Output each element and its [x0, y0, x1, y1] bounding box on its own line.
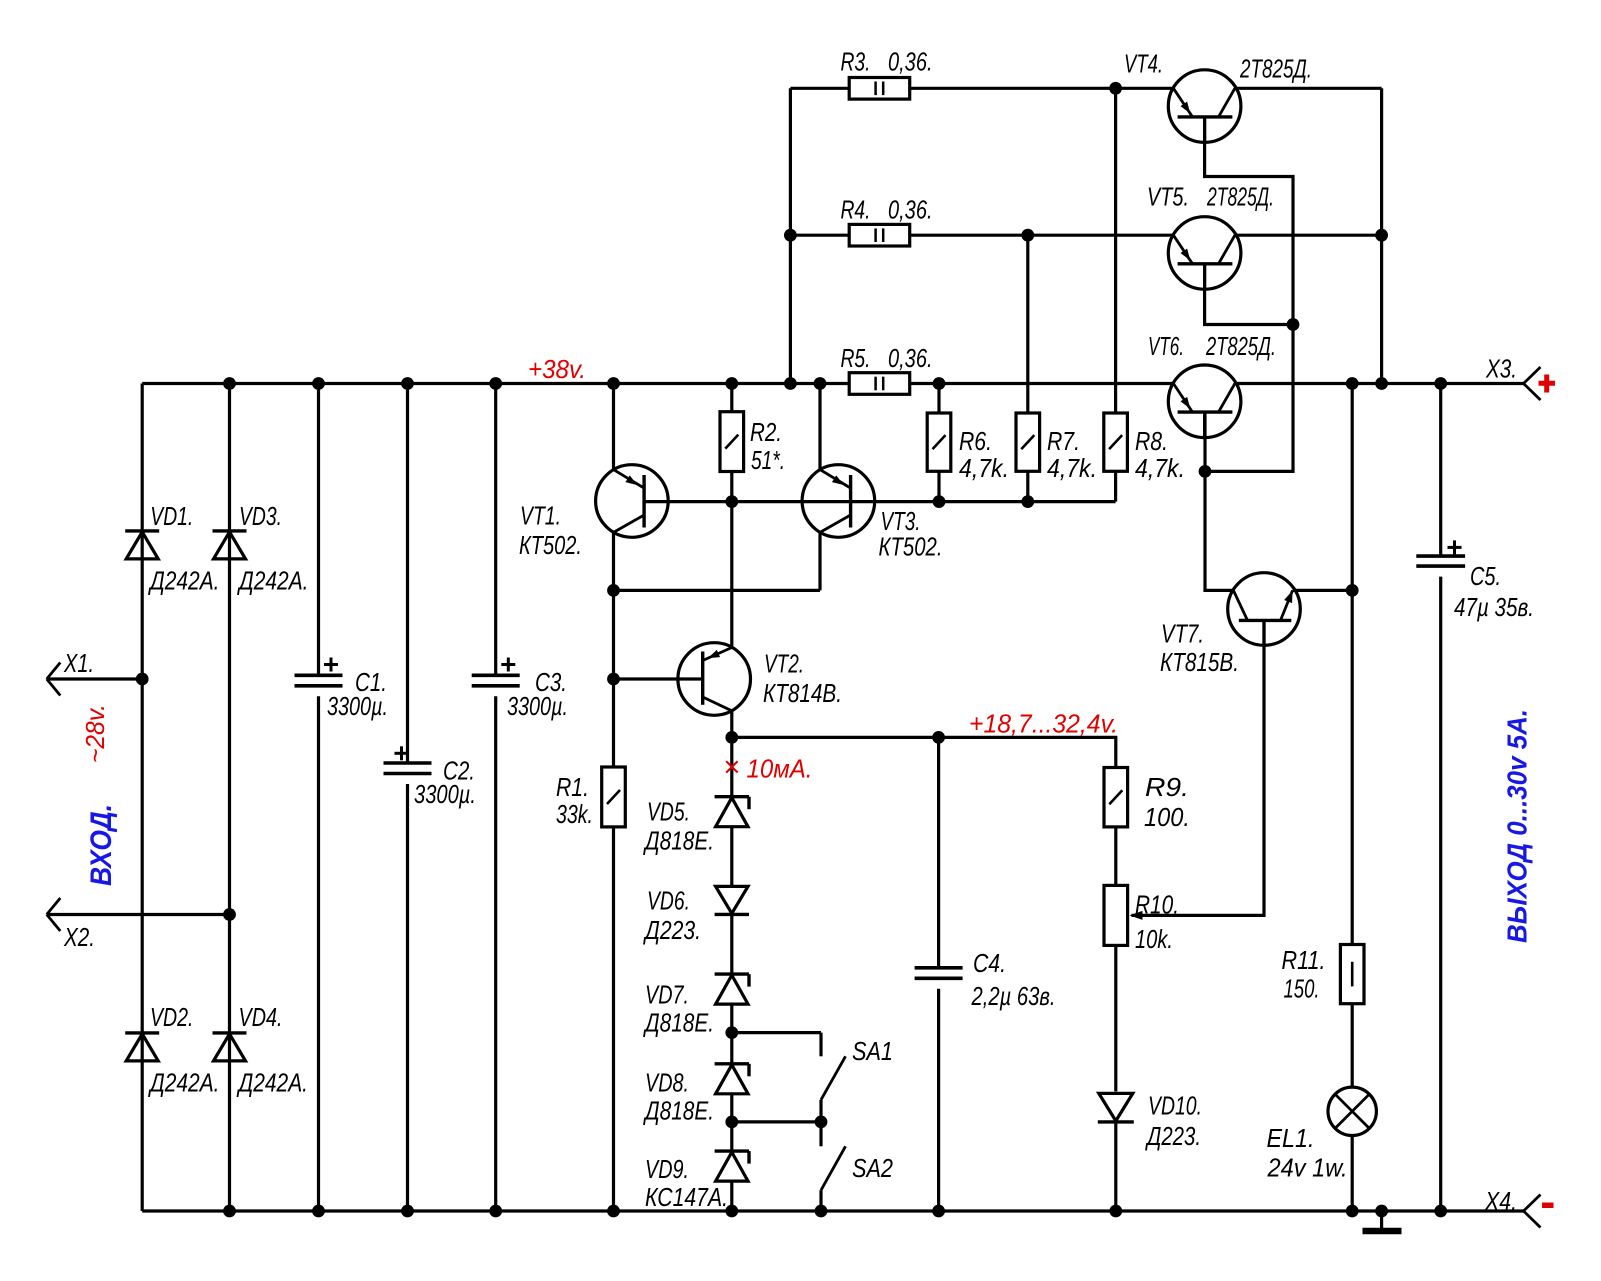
svg-text:X3.: X3. [1485, 354, 1517, 384]
svg-text:VT1.: VT1. [520, 501, 561, 531]
wire R8 column (crosses R4 row and rail) [1114, 88, 1117, 501]
junction dots on bottom rail [223, 1205, 1447, 1218]
svg-text:X2.: X2. [63, 922, 95, 952]
capacitor C4 [915, 968, 963, 979]
wire +18.7v line to R9 [732, 737, 1116, 767]
wire R7 column (crosses rail) [1026, 235, 1029, 501]
wire X2 input (crosses left column) [47, 913, 230, 916]
terminal X1 arrow [47, 663, 61, 696]
svg-text:EL1.: EL1. [1267, 1123, 1315, 1153]
label X4 minus (red) [1542, 1203, 1554, 1209]
svg-text:R10.: R10. [1135, 890, 1179, 920]
svg-text:4,7k.: 4,7k. [1047, 453, 1097, 483]
svg-text:ВХОД.: ВХОД. [85, 804, 118, 886]
svg-text:КТ814В.: КТ814В. [763, 678, 842, 708]
wire VD8-VD9 node to SA1/SA2 [732, 1120, 821, 1123]
svg-text:100.: 100. [1144, 802, 1190, 832]
svg-text:VD4.: VD4. [239, 1002, 283, 1032]
svg-text:3300µ.: 3300µ. [414, 779, 476, 809]
diode VD4 [213, 1033, 247, 1061]
svg-text:VD7.: VD7. [645, 980, 689, 1010]
diode VD3 [213, 531, 247, 559]
svg-text:SA1: SA1 [852, 1036, 893, 1066]
wire C4 column [937, 737, 940, 1211]
wire R3 row [790, 87, 1173, 90]
svg-text:R2.: R2. [750, 417, 782, 447]
ground symbol [1363, 1211, 1402, 1231]
svg-text:2Т825Д.: 2Т825Д. [1206, 181, 1274, 211]
zener VD9 [715, 1151, 749, 1181]
svg-text:КС147А.: КС147А. [645, 1182, 728, 1212]
svg-text:SA2: SA2 [852, 1153, 893, 1183]
capacitor C1 [295, 658, 343, 686]
svg-text:R7.: R7. [1047, 426, 1080, 456]
svg-text:VD9.: VD9. [645, 1154, 689, 1184]
wire R3/R4 feed column [789, 88, 792, 383]
svg-text:R5.: R5. [841, 343, 871, 373]
wire VT6 base to node [1203, 412, 1206, 471]
wire VD7-VD8 node to SA1 [732, 1031, 821, 1034]
wire R6 top [937, 384, 940, 414]
resistor R4 [849, 224, 910, 246]
transistor VT6 [1168, 365, 1241, 438]
transistor VT5 [1168, 217, 1241, 290]
svg-text:Д242А.: Д242А. [236, 1067, 308, 1097]
svg-text:VT5.: VT5. [1147, 181, 1189, 211]
lamp EL1 [1328, 1087, 1376, 1135]
svg-text:2,2µ 63в.: 2,2µ 63в. [971, 981, 1056, 1011]
svg-text:R9.: R9. [1145, 772, 1189, 802]
svg-text:VD6.: VD6. [647, 886, 690, 916]
svg-text:X4.: X4. [1484, 1186, 1517, 1216]
wire VT4 collector to right vertical [1235, 88, 1382, 383]
svg-text:R6.: R6. [959, 426, 992, 456]
zener VD5 [715, 797, 749, 827]
svg-text:Д818Е.: Д818Е. [643, 1096, 714, 1126]
wire VT7 emitter to column [1293, 589, 1353, 592]
capacitor C2 [384, 746, 432, 773]
svg-text:2Т825Д.: 2Т825Д. [1239, 54, 1312, 84]
wire VT1 emitter from rail [612, 384, 615, 470]
svg-text:R3.: R3. [841, 47, 871, 77]
svg-text:VD1.: VD1. [150, 501, 193, 531]
wire R2 column [730, 384, 733, 502]
junction dots on +38v rail [223, 377, 1447, 390]
svg-text:10мА.: 10мА. [747, 754, 813, 784]
svg-text:R1.: R1. [556, 772, 589, 802]
wire VT6 base node down to VT7 collector [1205, 471, 1233, 590]
wire VT1 collector down to node [612, 532, 615, 679]
svg-text:51*.: 51*. [751, 445, 785, 475]
svg-text:КТ502.: КТ502. [879, 531, 943, 561]
resistor R6 [927, 413, 951, 471]
resistor R8 [1104, 413, 1128, 471]
wire VT5 base staircase [1205, 264, 1293, 325]
wire R9 to R10 [1114, 827, 1117, 886]
wire VT3 emitter from rail [818, 384, 821, 470]
diode VD2 [125, 1033, 159, 1061]
junction dots misc [136, 82, 1388, 1128]
svg-text:3300µ.: 3300µ. [507, 691, 568, 721]
zener VD7 [715, 974, 749, 1004]
wire X1 input [47, 677, 143, 680]
svg-text:+18,7...32,4v.: +18,7...32,4v. [969, 709, 1118, 739]
wire R1 column below [612, 679, 615, 1211]
resistor R7 [1016, 413, 1040, 471]
svg-text:VD10.: VD10. [1148, 1091, 1202, 1121]
resistor R1 [602, 767, 626, 827]
svg-text:VT2.: VT2. [764, 648, 804, 678]
svg-text:VD5.: VD5. [647, 797, 690, 827]
wire R10 to VD10 [1114, 945, 1117, 1091]
transistor VT1 [596, 465, 669, 538]
wire left column VD1/VD2 [141, 384, 144, 1212]
svg-text:VT7.: VT7. [1161, 619, 1204, 649]
svg-text:33k.: 33k. [556, 799, 593, 829]
svg-text:150.: 150. [1284, 974, 1320, 1004]
resistor R9 [1104, 768, 1128, 827]
wire bottom rail (minus) [142, 1209, 1523, 1212]
svg-text:VD3.: VD3. [239, 501, 282, 531]
svg-text:0,36.: 0,36. [888, 195, 933, 225]
diode VD10 [1098, 1093, 1134, 1122]
svg-text:Д242А.: Д242А. [148, 566, 220, 596]
wire VT5 collector to right vertical [1235, 234, 1382, 237]
capacitor C3 [472, 658, 520, 686]
svg-text:ВЫХОД 0...30v 5А.: ВЫХОД 0...30v 5А. [1502, 709, 1533, 943]
svg-text:VT6.: VT6. [1148, 331, 1184, 361]
wire R4 row [790, 234, 1173, 237]
svg-text:0,36.: 0,36. [888, 343, 933, 373]
svg-text:C4.: C4. [973, 948, 1006, 978]
wire R6 bottom [937, 471, 940, 501]
svg-text:4,7k.: 4,7k. [1135, 453, 1185, 483]
terminal X4 arrow [1524, 1195, 1541, 1228]
transistor VT2 [678, 643, 751, 716]
svg-text:3300µ.: 3300µ. [327, 691, 388, 721]
svg-text:2Т825Д.: 2Т825Д. [1205, 331, 1276, 361]
terminal X3 arrow [1524, 367, 1541, 400]
svg-text:R8.: R8. [1135, 426, 1168, 456]
wire C3 column [494, 384, 497, 1212]
svg-text:+38v.: +38v. [528, 354, 586, 384]
wire VT4 base staircase [1205, 117, 1293, 325]
wire zener string [730, 737, 733, 1211]
resistor R3 [849, 78, 910, 100]
svg-text:×: × [723, 752, 740, 784]
svg-text:4,7k.: 4,7k. [959, 453, 1009, 483]
wire collector tie line VT1-VT3 [614, 532, 821, 590]
svg-text:R11.: R11. [1282, 945, 1326, 975]
wire VT2 emitter up to base node [730, 502, 733, 648]
svg-text:Д818Е.: Д818Е. [643, 1008, 714, 1038]
potentiometer R10 [1104, 885, 1143, 945]
svg-text:Д242А.: Д242А. [148, 1067, 220, 1097]
wire VT7 base down to R10 wiper [1132, 620, 1265, 915]
resistor R2 [720, 412, 744, 472]
transistor VT3 [802, 465, 875, 538]
transistor VT4 [1168, 70, 1241, 143]
svg-text:Д242А.: Д242А. [237, 566, 309, 596]
resistor R11 [1340, 945, 1364, 1004]
wire base line VT1-R2-VT3-R6-R7-R8 [644, 500, 1116, 503]
svg-text:47µ 35в.: 47µ 35в. [1454, 592, 1534, 622]
svg-text:R4.: R4. [841, 195, 871, 225]
diode VD1 [125, 531, 159, 559]
svg-text:~28v.: ~28v. [80, 704, 110, 763]
wire column VD3/VD4 [228, 384, 231, 1212]
diode VD6 [715, 886, 749, 914]
zener VD8 [715, 1064, 749, 1094]
svg-text:КТ815В.: КТ815В. [1160, 647, 1239, 677]
svg-text:Д223.: Д223. [643, 915, 701, 945]
wire VT2 base from R1 column [614, 677, 703, 680]
switch SA1 [821, 1033, 846, 1122]
wire VT2 collector down [730, 711, 733, 738]
wire +38v top rail [142, 382, 1523, 385]
transistor VT7 [1228, 573, 1301, 646]
wire C1 column [317, 384, 320, 1212]
svg-text:C5.: C5. [1470, 561, 1501, 591]
capacitor C5 [1416, 540, 1465, 566]
svg-text:VD2.: VD2. [150, 1002, 194, 1032]
svg-text:0,36.: 0,36. [888, 46, 933, 76]
label X3 plus (red) [1539, 375, 1556, 393]
svg-text:10k.: 10k. [1135, 924, 1173, 954]
resistor R5 [849, 373, 910, 395]
wire base staircase down to VT6 base [1205, 325, 1293, 472]
wire VD10 to bottom rail [1114, 1122, 1117, 1211]
svg-text:X1.: X1. [63, 648, 94, 678]
svg-text:КТ502.: КТ502. [519, 530, 582, 560]
switch SA2 [821, 1122, 846, 1211]
svg-text:Д818Е.: Д818Е. [643, 826, 714, 856]
svg-text:VD8.: VD8. [645, 1068, 689, 1098]
svg-text:VT4.: VT4. [1124, 49, 1163, 79]
svg-text:24v 1w.: 24v 1w. [1267, 1153, 1348, 1183]
wire X3 output column (VT7 emitter, R11, EL1) [1351, 384, 1354, 1212]
wire C2 column [406, 384, 409, 1212]
terminal X2 arrow [47, 898, 61, 931]
wire C5 column [1439, 384, 1442, 1212]
svg-text:Д223.: Д223. [1145, 1121, 1201, 1151]
